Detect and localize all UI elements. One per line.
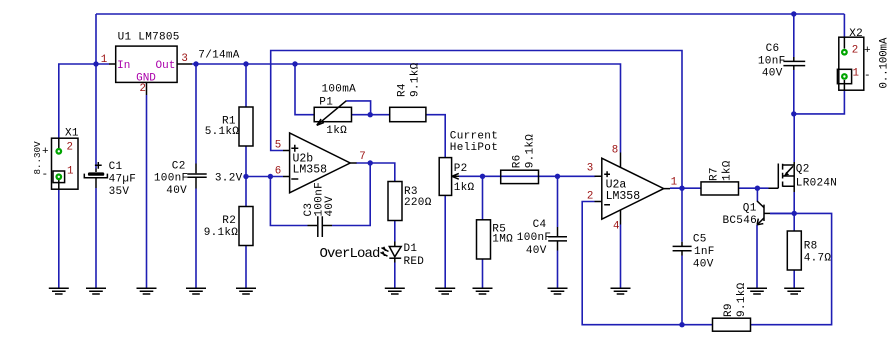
svg-text:X2: X2 bbox=[849, 28, 863, 40]
junction P1 wiper bbox=[368, 112, 373, 117]
X1 pin2 pad bbox=[55, 148, 62, 155]
junction R1 tap bbox=[243, 61, 248, 66]
X2 pin1 pad bbox=[841, 73, 848, 80]
svg-text:2: 2 bbox=[587, 191, 593, 203]
svg-text:1kΩ: 1kΩ bbox=[454, 182, 475, 194]
potentiometer P2 body bbox=[439, 158, 451, 196]
svg-text:1: 1 bbox=[853, 68, 859, 80]
wire R7 to Q2 gate bbox=[739, 187, 769, 189]
regulator U1 LM7805 body bbox=[116, 46, 177, 82]
X1 pin2 stub bbox=[58, 138, 60, 148]
svg-text:R8: R8 bbox=[804, 240, 818, 252]
svg-text:40V: 40V bbox=[324, 196, 336, 217]
svg-text:4.7Ω: 4.7Ω bbox=[804, 252, 832, 264]
svg-text:9.1kΩ: 9.1kΩ bbox=[736, 282, 748, 317]
svg-text:1MΩ: 1MΩ bbox=[492, 234, 513, 246]
wire X1 pin1 to ground bbox=[58, 189, 60, 288]
capacitor C6 plates bbox=[783, 61, 805, 65]
op-amp U2a bbox=[602, 158, 664, 219]
svg-text:2: 2 bbox=[140, 83, 146, 95]
X2 pin2 pad bbox=[841, 49, 848, 56]
junction top rail C6 bbox=[791, 11, 796, 16]
wire U2b pin5 from feedback rail bbox=[271, 51, 682, 189]
wire U2b pin6 C3 loop bbox=[270, 163, 370, 226]
capacitor C5 stubs bbox=[681, 242, 683, 256]
capacitor C3 plates bbox=[318, 216, 323, 237]
svg-text:-: - bbox=[42, 169, 49, 181]
junction U2a output bbox=[679, 186, 684, 191]
ground D1 bbox=[385, 288, 405, 294]
junction VCC-C1 bbox=[93, 61, 98, 66]
op-amp U2b bbox=[290, 133, 351, 193]
svg-text:1: 1 bbox=[101, 54, 107, 66]
wire bottom rail right of R9 bbox=[751, 213, 832, 324]
svg-text:2: 2 bbox=[852, 45, 858, 57]
wire U1 GND pin drop bbox=[146, 95, 148, 288]
ground C1 bbox=[86, 288, 106, 294]
svg-text:RED: RED bbox=[404, 256, 425, 268]
wire X2 pin1 to drain node bbox=[794, 90, 845, 114]
svg-text:In: In bbox=[117, 60, 130, 72]
capacitor C2 plates bbox=[187, 174, 206, 177]
wire R3 to D1 bbox=[394, 221, 396, 242]
svg-text:R2: R2 bbox=[222, 215, 236, 227]
mosfet Q2 LR024N bbox=[769, 164, 779, 189]
svg-text:5.1kΩ: 5.1kΩ bbox=[205, 126, 240, 138]
wire X1 pin2 riser to VCC node bbox=[59, 64, 109, 138]
wire P2 bottom to ground bbox=[444, 195, 446, 288]
junction C4 tap bbox=[555, 174, 560, 179]
svg-text:1kΩ: 1kΩ bbox=[722, 160, 734, 181]
wire R1 drop bbox=[245, 64, 247, 107]
wire P2 wiper row to U2a pin3 bbox=[459, 175, 596, 177]
wire D1 to ground bbox=[394, 263, 396, 289]
junction U2b output bbox=[368, 160, 373, 165]
svg-text:D1: D1 bbox=[404, 243, 418, 255]
wire U2a pin2 net to bottom rail bbox=[582, 202, 712, 325]
svg-text:P2: P2 bbox=[454, 163, 468, 175]
resistor R2 bbox=[239, 207, 253, 246]
X2 pin1 square bbox=[837, 69, 851, 83]
wire X2 pin2 drop bbox=[843, 14, 845, 38]
connector X1 body bbox=[52, 138, 79, 189]
junction 3.2V node bbox=[243, 174, 248, 179]
wire C5 branch bbox=[681, 188, 683, 325]
svg-text:R7: R7 bbox=[709, 167, 721, 181]
svg-text:C4: C4 bbox=[533, 219, 547, 231]
svg-text:R4: R4 bbox=[396, 83, 408, 97]
svg-text:BC546: BC546 bbox=[723, 215, 758, 227]
wire P1 right to R4 bbox=[352, 114, 390, 116]
ground R5 bbox=[473, 288, 493, 294]
ground C4 bbox=[548, 288, 568, 294]
svg-text:3.2V: 3.2V bbox=[215, 172, 243, 184]
svg-text:2: 2 bbox=[67, 142, 73, 154]
P2 wiper arrow bbox=[452, 173, 459, 179]
svg-text:HeliPot: HeliPot bbox=[450, 142, 498, 154]
svg-text:LM358: LM358 bbox=[293, 164, 328, 177]
svg-text:40V: 40V bbox=[762, 67, 783, 79]
svg-text:U1 LM7805: U1 LM7805 bbox=[118, 32, 180, 44]
U2a pin stubs bbox=[595, 153, 671, 225]
resistor R8 bbox=[787, 231, 801, 270]
capacitor C1 cup plate bbox=[84, 174, 107, 178]
wire top rail VIN bbox=[96, 13, 844, 15]
ground X1 bbox=[49, 288, 69, 294]
wire divider node 3.2V bbox=[246, 146, 283, 288]
wire P1 left riser bbox=[295, 64, 314, 115]
X1 pin1 pad bbox=[55, 173, 62, 180]
wire Q1 base to source node bbox=[770, 212, 794, 214]
svg-text:+: + bbox=[42, 146, 49, 158]
capacitor C1 plus plate bbox=[88, 172, 104, 175]
X2 pin stubs bbox=[843, 37, 845, 90]
capacitor C2 stubs bbox=[195, 164, 197, 189]
svg-text:C5: C5 bbox=[693, 234, 707, 246]
wire C6 branch bbox=[793, 14, 795, 114]
svg-text:5: 5 bbox=[275, 140, 281, 152]
svg-text:Q2: Q2 bbox=[796, 164, 810, 176]
svg-text:40V: 40V bbox=[526, 245, 547, 257]
resistor R6 bbox=[501, 170, 539, 183]
svg-text:1kΩ: 1kΩ bbox=[326, 125, 347, 137]
wire C4 drop bbox=[557, 176, 559, 288]
svg-text:100nF: 100nF bbox=[154, 172, 189, 184]
svg-text:100nF: 100nF bbox=[517, 232, 552, 244]
svg-text:8: 8 bbox=[612, 144, 618, 156]
resistor R4 bbox=[390, 107, 426, 121]
svg-text:LM358: LM358 bbox=[606, 190, 641, 203]
junction Q2 source node bbox=[792, 211, 797, 216]
capacitor C4 plates bbox=[548, 237, 567, 241]
ground C2 bbox=[186, 288, 206, 294]
svg-text:4: 4 bbox=[613, 220, 619, 232]
wire U2a pin4 to ground bbox=[620, 225, 622, 289]
capacitor C4 stubs bbox=[557, 227, 559, 251]
svg-text:9.1kΩ: 9.1kΩ bbox=[525, 134, 537, 169]
capacitor C1 stubs bbox=[95, 169, 97, 189]
resistor R1 bbox=[239, 107, 253, 146]
junction P2 wiper node bbox=[480, 174, 485, 179]
ground R2 bbox=[236, 288, 256, 294]
svg-text:47µF: 47µF bbox=[109, 173, 137, 185]
wire C2 drop bbox=[195, 64, 197, 288]
svg-text:3: 3 bbox=[587, 162, 593, 174]
X1 pin1 stub bbox=[58, 180, 60, 189]
X1 pin1 square bbox=[53, 171, 65, 183]
resistor R7 bbox=[701, 182, 739, 195]
svg-text:40V: 40V bbox=[166, 185, 187, 197]
svg-text:C1: C1 bbox=[109, 161, 123, 173]
svg-text:+: + bbox=[864, 45, 871, 57]
svg-text:40V: 40V bbox=[693, 258, 714, 270]
wire Q2 source to R8 bbox=[793, 192, 795, 231]
U1 pin stubs black bbox=[109, 64, 192, 95]
svg-text:0..100mA: 0..100mA bbox=[878, 37, 890, 89]
wire R5 drop bbox=[482, 176, 484, 288]
wire Q1 collector riser bbox=[756, 188, 758, 201]
ground P2 bbox=[435, 288, 455, 294]
junction Q1 collector bbox=[755, 186, 760, 191]
wire 5V rail right of U1 bbox=[192, 64, 621, 153]
svg-text:C2: C2 bbox=[172, 160, 186, 172]
svg-text:OverLoad: OverLoad bbox=[320, 246, 381, 262]
svg-text:-: - bbox=[864, 70, 871, 82]
Q2 body diode arrow bbox=[786, 166, 793, 173]
resistor R5 bbox=[477, 220, 491, 259]
junction P1 tap bbox=[292, 61, 297, 66]
ground R8 bbox=[784, 288, 804, 294]
capacitor C3 stubs bbox=[308, 225, 333, 227]
capacitor C6 stubs bbox=[793, 57, 795, 70]
svg-text:LR024N: LR024N bbox=[796, 178, 837, 190]
svg-text:35V: 35V bbox=[109, 186, 130, 198]
wire Q1 emitter to ground bbox=[756, 225, 758, 288]
svg-text:1: 1 bbox=[671, 176, 677, 188]
junction C3 left bbox=[268, 174, 273, 179]
U2b pin stubs bbox=[283, 151, 357, 177]
svg-text:Current: Current bbox=[450, 130, 498, 142]
svg-text:100mA: 100mA bbox=[322, 84, 357, 96]
transistor Q1 BC546 bbox=[763, 205, 765, 221]
svg-text:X1: X1 bbox=[65, 128, 79, 140]
capacitor C5 plates bbox=[673, 246, 692, 250]
svg-text:7: 7 bbox=[359, 151, 365, 163]
wire U2a output to R7 bbox=[670, 187, 701, 189]
svg-text:9.1kΩ: 9.1kΩ bbox=[204, 227, 239, 239]
svg-text:Q1: Q1 bbox=[743, 203, 757, 215]
junction C5 bottom rail bbox=[679, 322, 684, 327]
svg-text:1: 1 bbox=[67, 166, 73, 178]
svg-text:9.1kΩ: 9.1kΩ bbox=[410, 62, 422, 97]
svg-text:C6: C6 bbox=[766, 43, 780, 55]
svg-text:1nF: 1nF bbox=[694, 246, 715, 258]
svg-text:Out: Out bbox=[156, 60, 176, 72]
ground U2a bbox=[611, 288, 631, 294]
resistor R9 bbox=[713, 318, 751, 331]
wire VIN left drop to C1 bbox=[95, 14, 97, 288]
svg-text:6: 6 bbox=[275, 166, 281, 178]
junction C2 tap bbox=[193, 61, 198, 66]
LED D1 bbox=[389, 247, 401, 257]
svg-text:10nF: 10nF bbox=[758, 55, 786, 67]
C1 plus sign bbox=[95, 162, 102, 169]
wire P1 wiper link bbox=[346, 101, 370, 115]
wire U2b output to R3 bbox=[356, 163, 395, 182]
resistor R3 bbox=[388, 182, 402, 221]
P1 wiper arrow bbox=[317, 101, 347, 126]
svg-text:P1: P1 bbox=[319, 97, 333, 109]
wire Q2 drain riser bbox=[793, 114, 795, 162]
svg-text:7/14mA: 7/14mA bbox=[198, 50, 240, 62]
ground U1 bbox=[137, 288, 157, 294]
junction Q2 drain C6 bbox=[791, 111, 796, 116]
wire R4 right to P2 top bbox=[426, 115, 445, 158]
wire R8 to ground bbox=[793, 270, 795, 288]
potentiometer P1 body bbox=[314, 107, 351, 121]
svg-text:220Ω: 220Ω bbox=[404, 197, 432, 209]
svg-text:R9: R9 bbox=[723, 303, 735, 317]
ground Q1 bbox=[747, 288, 767, 294]
svg-text:3: 3 bbox=[181, 53, 187, 65]
D1 emission arrows bbox=[381, 247, 389, 256]
svg-text:R6: R6 bbox=[512, 154, 524, 168]
connector X2 body bbox=[839, 37, 864, 90]
